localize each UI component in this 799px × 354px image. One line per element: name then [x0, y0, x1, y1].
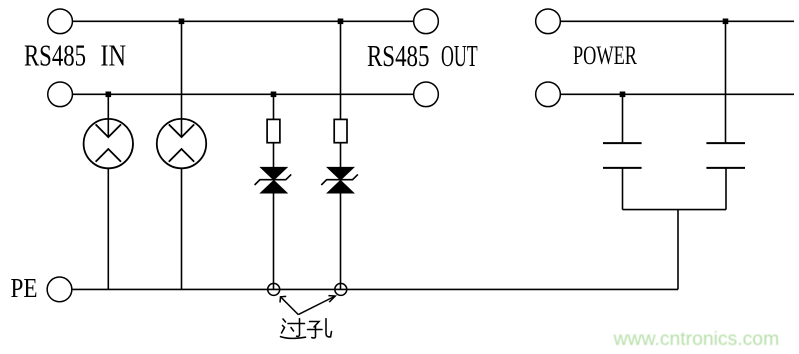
wire: GDT1 bottom lead to PE	[107, 168, 109, 289]
wire: PE ground bus	[72, 288, 678, 290]
junction: R1 on line B	[271, 92, 277, 98]
过	[288, 323, 305, 325]
孔	[310, 322, 320, 328]
wire: GDT2 top lead from line A	[181, 21, 183, 137]
watermark: www.cntronics.com	[0, 0, 1, 1]
terminal: PE	[47, 277, 72, 302]
label: 过孔 (via) hand-drawn glyphs	[281, 319, 332, 339]
wire: C1 top lead	[622, 94, 624, 143]
wire: C2 top lead	[725, 21, 727, 143]
wire: GDT2 bottom lead to PE	[181, 168, 183, 289]
wire: RS485 line A (top bus, IN to OUT)	[73, 20, 414, 22]
svg-text:OUT: OUT	[441, 39, 478, 73]
junction: GDT2 on line A	[179, 19, 185, 25]
junction: C1 on POWER bottom bus	[620, 92, 626, 98]
arrow to via 1	[280, 296, 298, 314]
wire: C2 bottom lead	[725, 168, 727, 210]
via hole 1	[268, 283, 280, 295]
gas discharge tube GDT2	[157, 119, 206, 168]
terminal: POWER -	[536, 82, 561, 107]
wire: R1 to D1 lead	[273, 143, 275, 168]
wire: R1 top lead from line B	[273, 94, 275, 119]
via hole 2	[335, 283, 347, 295]
wire: D2 to via lead	[340, 193, 342, 290]
svg-text:RS485: RS485	[367, 39, 430, 73]
wire: POWER bottom bus	[560, 93, 794, 95]
wire: R2 to D2 lead	[340, 143, 342, 168]
TVS diode D1 (bidirectional)	[255, 167, 292, 193]
terminal: RS485 IN B	[48, 82, 73, 107]
svg-text:www.cntronics.com: www.cntronics.com	[613, 329, 780, 350]
capacitor C1	[603, 143, 642, 168]
svg-text:RS485: RS485	[24, 39, 86, 73]
svg-text:IN: IN	[100, 39, 126, 73]
arrow to via 2	[298, 296, 335, 315]
capacitor C2	[706, 143, 745, 168]
terminal: RS485 IN A	[48, 9, 73, 34]
wire: POWER top bus	[560, 20, 794, 22]
junction: C2 on POWER top bus	[723, 19, 729, 25]
terminal: RS485 OUT B	[414, 82, 439, 107]
wire: RS485 line B (lower bus, IN to OUT)	[73, 93, 414, 95]
wire: capacitor common connector	[623, 209, 727, 211]
resistor R1	[267, 119, 280, 142]
wire: drop from capacitor connector to PE bus	[677, 210, 679, 290]
junction: R2 on line A	[338, 19, 344, 25]
junction: GDT1 on line B	[106, 92, 112, 98]
wire: GDT1 top lead from line B	[107, 94, 109, 137]
wire: D1 to via lead	[273, 193, 275, 290]
terminal: POWER +	[536, 9, 561, 34]
wire: R2 top lead from line A	[340, 21, 342, 119]
TVS diode D2 (bidirectional)	[321, 167, 358, 193]
terminal: RS485 OUT A	[414, 9, 439, 34]
svg-text:POWER: POWER	[573, 40, 637, 70]
wire: C1 bottom lead	[622, 168, 624, 210]
resistor R2	[334, 119, 347, 142]
gas discharge tube GDT1	[84, 119, 133, 168]
svg-text:PE: PE	[11, 273, 38, 303]
